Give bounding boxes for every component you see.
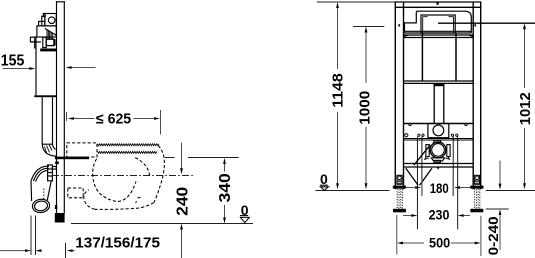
svg-text:230: 230 — [429, 208, 450, 223]
svg-text:155: 155 — [1, 53, 25, 70]
svg-text:180: 180 — [430, 180, 449, 196]
svg-text:0: 0 — [320, 171, 328, 187]
svg-text:500: 500 — [429, 236, 450, 251]
svg-text:1000: 1000 — [357, 91, 374, 125]
svg-text:137/156/175: 137/156/175 — [75, 235, 160, 251]
svg-text:340: 340 — [217, 173, 234, 202]
svg-text:240: 240 — [175, 187, 192, 216]
svg-text:1148: 1148 — [329, 73, 346, 108]
svg-text:1012: 1012 — [518, 92, 534, 125]
svg-text:≤ 625: ≤ 625 — [96, 111, 131, 127]
svg-text:0-240: 0-240 — [486, 216, 502, 255]
